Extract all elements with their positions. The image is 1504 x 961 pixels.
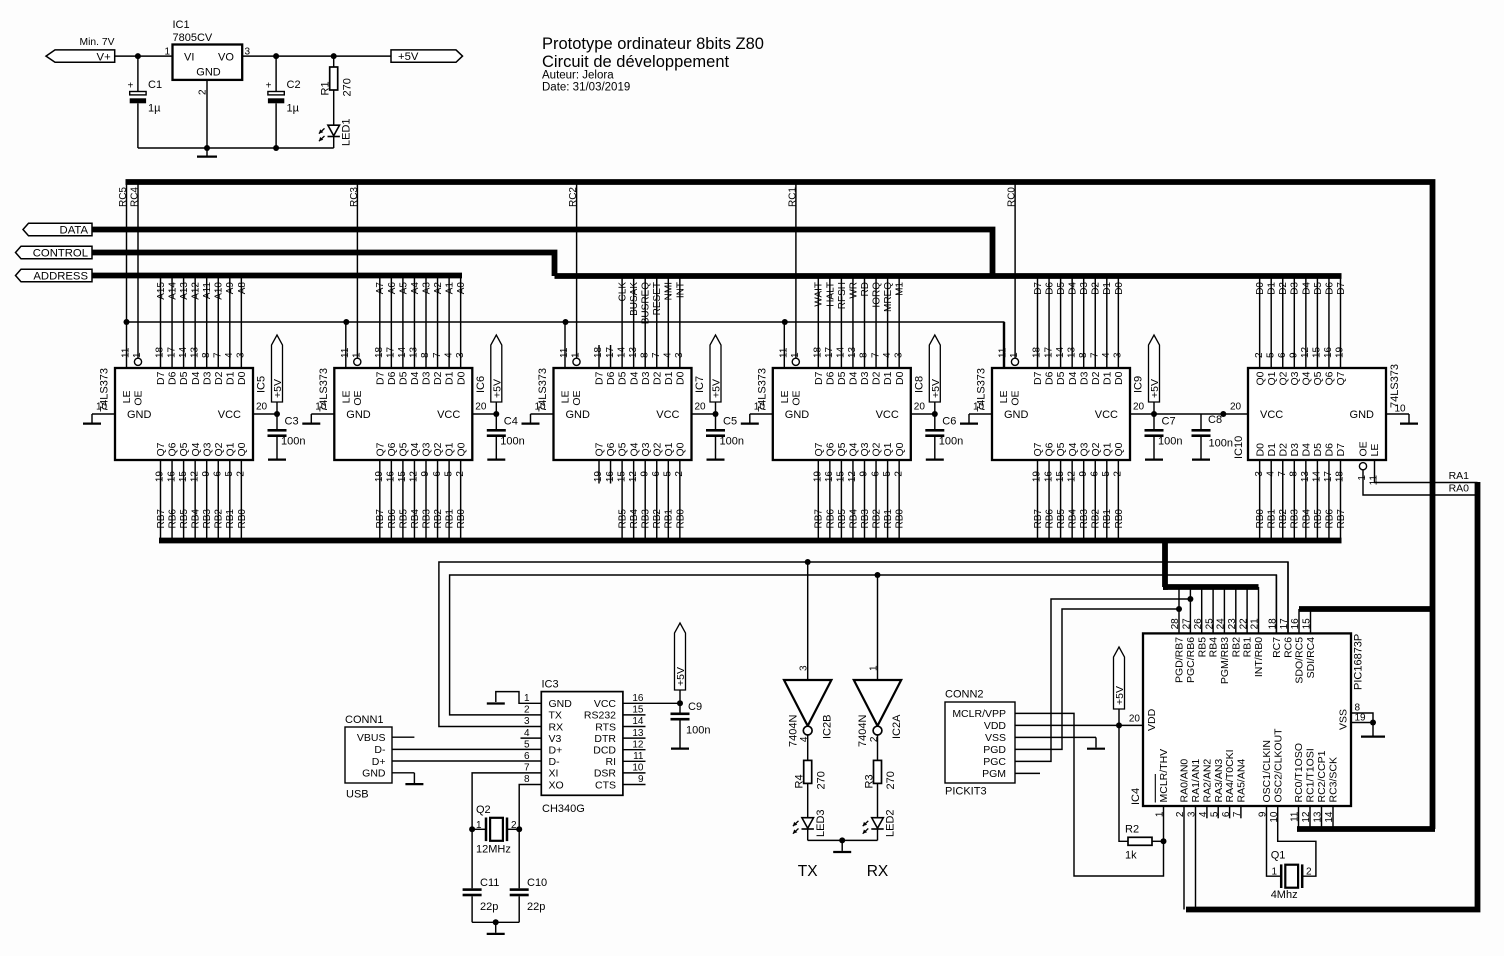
svg-text:11: 11 (1290, 811, 1301, 822)
wire IC9 pin 13 / net D4 (1066, 276, 1078, 368)
svg-text:D7: D7 (813, 371, 825, 385)
junction IC6 VCC (493, 411, 499, 417)
svg-text:LE: LE (1369, 444, 1381, 457)
svg-text:RI: RI (606, 756, 617, 768)
svg-text:D5: D5 (836, 371, 848, 385)
ground C10/C11 (487, 922, 505, 934)
wire IC5 LE pin 11 (121, 347, 132, 358)
svg-text:3: 3 (1187, 811, 1198, 817)
wire CONN2 PGD to PIC pin28 (1015, 609, 1179, 749)
wire IC3 XO to crystal (519, 774, 541, 829)
svg-text:D-: D- (374, 744, 386, 756)
svg-text:VI: VI (184, 52, 194, 64)
wire IC9 pin 17 / net D6 (1043, 276, 1055, 368)
svg-text:GND: GND (1004, 409, 1029, 421)
svg-text:C1: C1 (148, 79, 162, 91)
connector CONN2 PICKIT3 (945, 689, 1015, 798)
svg-text:D7: D7 (1336, 282, 1347, 295)
svg-text:4: 4 (1198, 811, 1209, 817)
svg-text:6: 6 (524, 751, 530, 762)
svg-text:SDO/RC5: SDO/RC5 (1294, 637, 1306, 684)
svg-text:RB3: RB3 (860, 509, 871, 529)
junction IC7 VCC (713, 411, 719, 417)
capacitor C1 1u (127, 56, 162, 148)
wire IC6 OE pin 1 (inverted) (352, 352, 363, 365)
svg-text:1: 1 (352, 352, 363, 358)
svg-text:3: 3 (455, 352, 466, 358)
svg-text:D7: D7 (155, 371, 167, 385)
svg-text:Q4: Q4 (190, 442, 202, 456)
svg-text:RB6: RB6 (387, 509, 398, 529)
svg-text:RB1: RB1 (1267, 509, 1278, 529)
wire IC4 pin 16 SDO (1290, 609, 1301, 633)
svg-text:MREQ: MREQ (883, 282, 894, 312)
wire IC8 pin 19 / net RB7 (813, 460, 825, 541)
bus RA0/RA1 (1186, 482, 1478, 910)
svg-text:22p: 22p (527, 901, 545, 913)
svg-text:CONN1: CONN1 (345, 714, 384, 726)
wire IC4 pin 13 to RC bus (1313, 806, 1324, 829)
svg-text:100n: 100n (686, 725, 710, 737)
svg-text:Q4: Q4 (848, 442, 860, 456)
svg-text:100n: 100n (939, 436, 963, 448)
svg-text:C5: C5 (723, 416, 737, 428)
svg-text:D3: D3 (1078, 371, 1090, 385)
wire IC3 pin 1 GND (496, 692, 542, 704)
bus RC0-RC5 (top) (126, 182, 1433, 829)
ground C9 (671, 740, 689, 749)
wire IC7 OE pin 1 (inverted) (571, 352, 582, 365)
svg-text:Q3: Q3 (1289, 371, 1301, 385)
junction IC2A input (875, 572, 881, 578)
wire IC6 pin 4 / net A1 (443, 276, 455, 368)
wire VCC rail IC9 to IC10 (1154, 413, 1248, 415)
wire IC5 GND pin 10 (92, 402, 115, 423)
ground C5 (707, 451, 725, 460)
svg-text:A2: A2 (433, 282, 444, 295)
junction ground rail at C2 (273, 145, 279, 151)
svg-text:D1: D1 (224, 371, 236, 385)
svg-text:D6: D6 (1324, 443, 1336, 457)
svg-text:6: 6 (212, 471, 223, 477)
svg-text:D1: D1 (663, 371, 675, 385)
svg-text:OE: OE (790, 391, 802, 406)
svg-text:18: 18 (1268, 618, 1279, 630)
wire IC3 RX to PIC RC6 (439, 562, 1288, 727)
svg-text:CTS: CTS (595, 779, 616, 791)
svg-text:Q6: Q6 (1324, 371, 1336, 385)
wire IC6 pin 13 / net A4 (409, 276, 421, 368)
wire IC5 pin 9 / net RB3 (201, 460, 213, 541)
wire IC6 pin 9 / net RB3 (420, 460, 432, 541)
svg-text:IC8: IC8 (913, 376, 925, 393)
svg-text:Q4: Q4 (1300, 371, 1312, 385)
wire IC5 pin 17 / net A14 (166, 276, 178, 368)
svg-text:D0: D0 (236, 371, 248, 385)
svg-text:7404N: 7404N (857, 715, 869, 747)
power flag +5V at IC5 (272, 335, 285, 414)
svg-text:Q2: Q2 (213, 442, 225, 456)
svg-text:RA4/T0CKI: RA4/T0CKI (1224, 749, 1236, 802)
svg-text:1: 1 (1155, 811, 1166, 817)
junction C1 top (135, 53, 141, 59)
svg-text:RB7: RB7 (814, 509, 825, 529)
svg-text:D7: D7 (1033, 282, 1044, 295)
wire IC10 pin 17 / net RB6 (1323, 460, 1335, 541)
ground C7 (1145, 451, 1163, 460)
svg-text:D0: D0 (1254, 443, 1266, 457)
svg-text:DTR: DTR (594, 733, 616, 745)
junction LE rail LE IC6 (343, 319, 349, 325)
wire CONN1 VBUS stub (392, 736, 414, 738)
svg-text:VO: VO (218, 52, 234, 64)
svg-text:OSC1/CLKIN: OSC1/CLKIN (1261, 740, 1273, 802)
svg-text:13: 13 (1300, 471, 1311, 483)
svg-text:17: 17 (386, 346, 397, 358)
wire IC10 pin 3 / net RB0 (1254, 460, 1266, 541)
svg-text:PGC/RB6: PGC/RB6 (1185, 637, 1197, 683)
power flag +5V at IC7 (710, 335, 723, 414)
svg-text:Auteur: Jelora: Auteur: Jelora (542, 70, 614, 82)
svg-text:RX: RX (549, 721, 564, 733)
svg-text:Q2: Q2 (432, 442, 444, 456)
svg-text:6: 6 (1221, 811, 1232, 817)
wire IC4 pin 4 stub (1198, 806, 1209, 818)
inverter IC2B 7404N (784, 665, 833, 747)
wire IC10 pin 13 / net RB4 (1300, 460, 1312, 541)
svg-text:10: 10 (1395, 404, 1407, 415)
svg-text:XO: XO (549, 779, 564, 791)
junction Q2 pin2 (516, 826, 522, 832)
svg-text:270: 270 (815, 771, 827, 789)
junction caps ground (493, 919, 499, 925)
wire IC8 pin 8 / net RD (859, 276, 871, 368)
svg-text:19: 19 (593, 471, 604, 483)
svg-text:Q2: Q2 (1277, 371, 1289, 385)
svg-text:A11: A11 (202, 282, 213, 299)
wire IC9 pin 3 / net D0 (1113, 276, 1125, 368)
svg-text:RA1/AN1: RA1/AN1 (1190, 759, 1202, 803)
svg-text:D2: D2 (871, 371, 883, 385)
svg-text:4: 4 (1265, 471, 1276, 477)
svg-text:1k: 1k (1125, 850, 1137, 862)
svg-text:Q5: Q5 (178, 442, 190, 456)
junction PGC (1187, 596, 1193, 602)
wire IC6 pin 15 / net RB5 (397, 460, 409, 541)
svg-text:NMI: NMI (664, 282, 675, 300)
wire IC2A input from TX line (877, 575, 879, 680)
wire IC8 pin 9 / net RB3 (859, 460, 871, 541)
svg-text:PGD/RB7: PGD/RB7 (1174, 637, 1186, 683)
wire IC9 LE pin 11 (998, 322, 1009, 368)
svg-text:Q6: Q6 (1044, 442, 1056, 456)
svg-text:18: 18 (1032, 346, 1043, 358)
svg-text:27: 27 (1182, 618, 1193, 630)
wire IC9 pin 2 / net RB0 (1113, 460, 1125, 541)
svg-text:10: 10 (754, 402, 766, 413)
svg-text:Q7: Q7 (813, 442, 825, 456)
node ADDRESS flag (16, 269, 93, 282)
wire IC9 pin 6 / net RB2 (1089, 460, 1101, 541)
svg-text:2: 2 (1306, 867, 1312, 878)
svg-text:5: 5 (1101, 471, 1112, 477)
wire IC10 pin 2 / net D0 (1254, 276, 1266, 368)
svg-text:2: 2 (1175, 811, 1186, 817)
svg-text:14: 14 (397, 346, 408, 358)
svg-text:8: 8 (420, 352, 431, 358)
wire IC8 pin 16 / net RB6 (824, 460, 836, 541)
svg-text:RC3/SCK: RC3/SCK (1328, 757, 1340, 803)
svg-text:D0: D0 (1255, 282, 1266, 295)
svg-text:Q5: Q5 (1312, 371, 1324, 385)
wire IC5 pin 2 / net RB0 (236, 460, 248, 541)
power flag +5V at C9 (675, 623, 688, 703)
capacitor C8 100n (1192, 414, 1233, 451)
svg-text:D7: D7 (594, 371, 606, 385)
svg-text:10: 10 (973, 402, 985, 413)
wire IC3 pin 14 stub (623, 716, 646, 727)
wire IC4 pin 5 stub (1209, 806, 1220, 818)
svg-text:10: 10 (1269, 811, 1280, 823)
wire IC4 pin 14 to RC bus (1324, 806, 1335, 829)
svg-text:RC0: RC0 (1007, 187, 1018, 207)
svg-text:Q5: Q5 (1055, 442, 1067, 456)
svg-text:D3: D3 (421, 371, 433, 385)
svg-text:11: 11 (998, 347, 1009, 358)
svg-text:Q7: Q7 (155, 442, 167, 456)
junction C8 (1220, 411, 1226, 417)
junction R1 top (331, 53, 337, 59)
wire IC4 pin 24 (PGM/RB3) (1216, 587, 1227, 633)
wire IC9 pin 16 / net RB6 (1043, 460, 1055, 541)
capacitor C10 22p (510, 829, 547, 922)
svg-text:D2: D2 (1091, 282, 1102, 295)
svg-text:14: 14 (178, 346, 189, 358)
wire CONN2 VSS (1015, 737, 1096, 747)
capacitor C4 100n (487, 414, 525, 451)
svg-text:A5: A5 (398, 282, 409, 295)
svg-text:CH340G: CH340G (542, 803, 585, 815)
svg-text:GND: GND (566, 409, 591, 421)
svg-text:+: + (266, 81, 272, 92)
svg-text:RC1/T1OSI: RC1/T1OSI (1305, 748, 1317, 802)
wire IC5 pin 4 / net A9 (224, 276, 236, 368)
svg-text:Q1: Q1 (1266, 371, 1278, 385)
wire IC7 pin 12 / net RB4 (628, 460, 640, 541)
svg-text:17: 17 (1323, 471, 1334, 483)
wire IC8 pin 12 / net RB4 (847, 460, 859, 541)
svg-text:15: 15 (836, 471, 847, 483)
svg-text:BUSREQ: BUSREQ (641, 282, 652, 324)
wire IC6 pin 17 / net A6 (386, 276, 398, 368)
svg-text:4: 4 (1101, 352, 1112, 358)
svg-text:WAIT: WAIT (814, 282, 825, 307)
svg-text:RB3: RB3 (421, 509, 432, 529)
wire IC7 pin 13 / net BUSAK (628, 276, 640, 368)
wire LE rail (127, 322, 1005, 368)
svg-text:16: 16 (1043, 471, 1054, 483)
svg-text:14: 14 (836, 346, 847, 358)
wire IC5 VCC pin 20 (253, 402, 277, 415)
wire IC6 pin 5 / net RB1 (443, 460, 455, 541)
svg-text:RB2: RB2 (214, 509, 225, 529)
svg-text:RESET: RESET (652, 282, 663, 315)
wire IC5 OE pin 1 (inverted) (132, 352, 143, 365)
junction C9 (677, 700, 683, 706)
wire IC5 pin 15 / net RB5 (178, 460, 190, 541)
svg-text:D3: D3 (640, 371, 652, 385)
svg-text:15: 15 (1302, 618, 1313, 630)
bus SDO/SDI branch (1299, 606, 1435, 612)
svg-text:D3: D3 (1079, 282, 1090, 295)
svg-text:19: 19 (813, 471, 824, 483)
wire IC4 pin 2 RA0 (1175, 806, 1186, 910)
svg-text:Q1: Q1 (224, 442, 236, 456)
svg-text:7: 7 (524, 763, 530, 774)
svg-text:20: 20 (256, 402, 268, 413)
svg-text:D7: D7 (1032, 371, 1044, 385)
svg-text:Q1: Q1 (444, 442, 456, 456)
svg-text:DSR: DSR (594, 768, 617, 780)
svg-text:A1: A1 (445, 282, 456, 295)
svg-text:16: 16 (824, 471, 835, 483)
svg-text:IC6: IC6 (475, 376, 487, 393)
svg-text:RB0: RB0 (1255, 509, 1266, 529)
svg-text:7: 7 (870, 352, 881, 358)
svg-text:D5: D5 (1312, 443, 1324, 457)
svg-text:6: 6 (870, 471, 881, 477)
svg-text:RD: RD (860, 282, 871, 296)
svg-text:RA3/AN3: RA3/AN3 (1213, 759, 1225, 803)
wire IC9 pin 15 / net RB5 (1055, 460, 1067, 541)
svg-text:16: 16 (1323, 346, 1334, 358)
svg-text:RB5: RB5 (398, 509, 409, 529)
svg-text:11: 11 (121, 347, 132, 358)
svg-text:C10: C10 (527, 877, 547, 889)
svg-text:Q5: Q5 (398, 442, 410, 456)
svg-text:RB5: RB5 (1313, 509, 1324, 529)
svg-text:RFSH: RFSH (837, 282, 848, 309)
wire IC10 pin 6 / net D2 (1277, 276, 1289, 368)
svg-text:RC0/T1OSO: RC0/T1OSO (1293, 743, 1305, 803)
svg-text:TX: TX (549, 710, 562, 722)
wire IC3 XI to crystal (472, 763, 541, 830)
svg-text:IC7: IC7 (694, 376, 706, 393)
junction IC2B input (805, 559, 811, 565)
svg-text:R4: R4 (794, 774, 806, 788)
svg-text:16: 16 (386, 471, 397, 483)
svg-text:RB2: RB2 (1230, 637, 1242, 658)
wire IC8 GND pin 10 (750, 402, 773, 423)
svg-text:RB4: RB4 (1301, 509, 1312, 529)
svg-text:10: 10 (96, 402, 108, 413)
svg-text:D7: D7 (374, 371, 386, 385)
svg-text:10: 10 (535, 402, 547, 413)
svg-text:10: 10 (315, 402, 327, 413)
svg-text:Q0: Q0 (1113, 442, 1125, 456)
svg-text:D4: D4 (848, 371, 860, 385)
svg-text:Q5: Q5 (836, 442, 848, 456)
ground IC6 (302, 423, 320, 425)
svg-text:13: 13 (189, 346, 200, 358)
svg-text:RB1: RB1 (445, 509, 456, 529)
svg-text:PGD: PGD (983, 744, 1006, 756)
svg-text:2: 2 (524, 705, 530, 716)
wire IC4 pin 3 RA1 (1187, 806, 1198, 910)
svg-text:HALT: HALT (825, 282, 836, 307)
wire IC6 pin 8 / net A3 (420, 276, 432, 368)
svg-text:D1: D1 (1267, 282, 1278, 295)
svg-text:USB: USB (346, 789, 369, 801)
svg-text:BUSAK: BUSAK (629, 282, 640, 316)
svg-text:4: 4 (799, 736, 810, 742)
wire IC1 GND pin (206, 80, 208, 148)
svg-text:3: 3 (236, 352, 247, 358)
wire IC10 pin 18 / net RB7 (1335, 460, 1347, 541)
svg-text:22p: 22p (480, 901, 498, 913)
svg-text:D5: D5 (617, 371, 629, 385)
svg-text:15: 15 (616, 471, 627, 483)
svg-text:RC2: RC2 (568, 187, 579, 207)
svg-text:3: 3 (799, 665, 810, 671)
power flag +5V at IC4 (1114, 647, 1127, 725)
svg-text:8: 8 (524, 774, 530, 785)
ground IC5 (83, 423, 101, 425)
bus ADDRESS (92, 273, 462, 279)
wire IC10 pin 4 / net RB1 (1265, 460, 1277, 541)
svg-text:4: 4 (443, 352, 454, 358)
svg-text:RB0: RB0 (675, 509, 686, 529)
wire IC4 VDD pin 20 (1129, 714, 1141, 725)
svg-text:Q6: Q6 (386, 442, 398, 456)
svg-text:RB5: RB5 (1056, 509, 1067, 529)
wire IC6 pin 12 / net RB4 (409, 460, 421, 541)
wire IC4 pin 6 stub (1221, 806, 1232, 818)
svg-text:270: 270 (342, 78, 354, 96)
ground CONN1 (405, 783, 423, 785)
svg-text:2: 2 (455, 471, 466, 477)
wire IC3 pin 11 stub (623, 751, 646, 762)
svg-text:D7: D7 (1335, 443, 1347, 457)
resistor R3 270 (863, 760, 897, 817)
svg-text:D3: D3 (1289, 443, 1301, 457)
wire IC4 VSS pins 8/19 (1351, 703, 1373, 724)
svg-text:RC1: RC1 (787, 187, 798, 207)
svg-text:LED1: LED1 (341, 118, 353, 146)
svg-text:RB0: RB0 (237, 509, 248, 529)
wire IC8 OE pin 1 (inverted) (790, 352, 801, 365)
svg-text:V3: V3 (549, 733, 562, 745)
svg-text:3: 3 (674, 352, 685, 358)
svg-text:15: 15 (397, 471, 408, 483)
svg-text:D6: D6 (1044, 282, 1055, 295)
wire IC8 pin 17 / net HALT (824, 276, 836, 368)
svg-text:Q4: Q4 (628, 442, 640, 456)
bus RB to PIC (1163, 538, 1259, 587)
svg-text:RB7: RB7 (1336, 509, 1347, 529)
svg-text:7: 7 (432, 352, 443, 358)
svg-text:C11: C11 (480, 877, 499, 889)
svg-text:4: 4 (524, 728, 530, 739)
wire IC3 pin 15 stub (623, 705, 646, 716)
svg-text:D6: D6 (824, 371, 836, 385)
svg-text:Q6: Q6 (605, 442, 617, 456)
svg-text:18: 18 (813, 346, 824, 358)
svg-text:RB6: RB6 (1324, 509, 1335, 529)
ground C4 (487, 451, 505, 460)
bus RC0-RC3 branch (PIC) (1297, 826, 1435, 832)
svg-text:GND: GND (346, 409, 371, 421)
